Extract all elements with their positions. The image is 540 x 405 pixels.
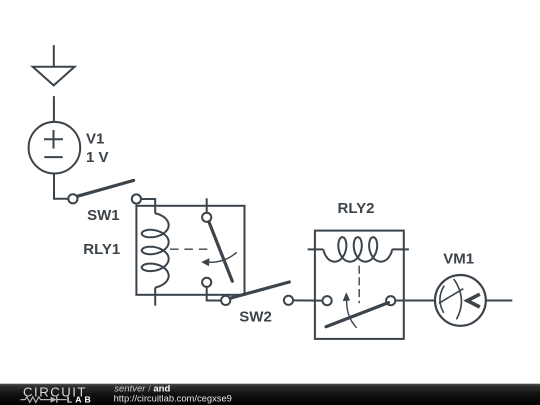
svg-text:RLY2: RLY2 <box>338 200 375 217</box>
wire VM1 right <box>486 300 513 302</box>
svg-text:SW2: SW2 <box>239 309 272 326</box>
svg-text:LAB: LAB <box>67 395 94 405</box>
relay RLY2 <box>308 231 409 339</box>
logo squiggle resistor <box>21 397 51 403</box>
wire SW2 to RLY2 <box>293 299 323 301</box>
svg-text:RLY1: RLY1 <box>83 241 120 258</box>
wire ground to V1 <box>53 96 55 122</box>
svg-text:VM1: VM1 <box>443 250 474 267</box>
ground <box>33 45 75 85</box>
wire SW1 to RLY1 coil <box>141 199 155 214</box>
switch SW2 <box>221 282 293 305</box>
wire RLY2 to VM1 <box>395 300 435 302</box>
svg-text:1 V: 1 V <box>86 149 109 166</box>
voltmeter VM1 <box>435 275 486 326</box>
svg-text:V1: V1 <box>86 130 104 147</box>
switch SW1 <box>68 180 141 203</box>
wire V1 to SW1 <box>54 174 68 199</box>
logo diode <box>51 397 57 403</box>
voltage source V1 <box>29 122 81 174</box>
svg-text:SW1: SW1 <box>87 207 120 224</box>
relay RLY1 <box>136 198 244 305</box>
wire RLY1 to SW2 <box>207 287 221 301</box>
svg-text:http://circuitlab.com/cegxse9: http://circuitlab.com/cegxse9 <box>114 393 232 404</box>
